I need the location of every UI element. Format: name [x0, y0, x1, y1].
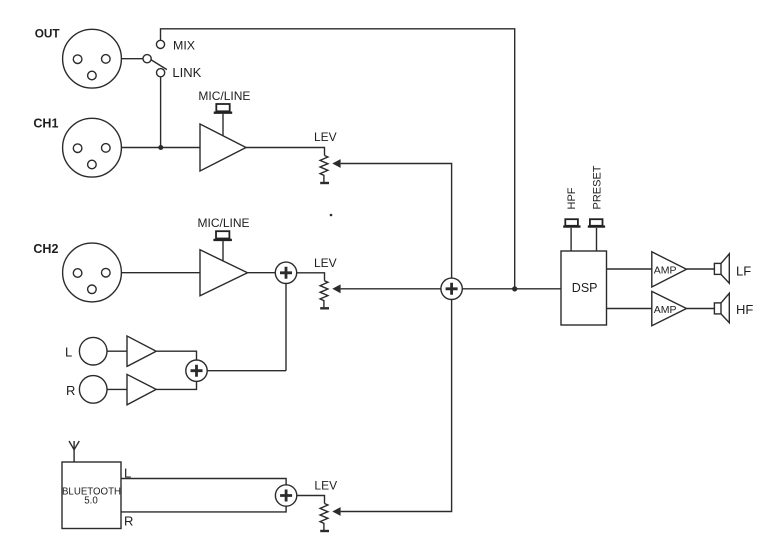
svg-text:MIC/LINE: MIC/LINE — [198, 216, 250, 230]
svg-text:R: R — [124, 514, 133, 529]
svg-text:LF: LF — [736, 264, 751, 279]
svg-text:LEV: LEV — [314, 130, 337, 144]
svg-text:HPF: HPF — [566, 187, 578, 209]
svg-text:LEV: LEV — [314, 256, 337, 270]
svg-text:L: L — [124, 466, 131, 481]
svg-text:DSP: DSP — [572, 281, 598, 295]
svg-text:HF: HF — [736, 302, 753, 317]
svg-text:MIX: MIX — [173, 39, 195, 53]
svg-text:OUT: OUT — [35, 27, 61, 41]
svg-text:MIC/LINE: MIC/LINE — [198, 89, 250, 103]
svg-text:AMP: AMP — [654, 264, 677, 276]
svg-text:5.0: 5.0 — [84, 496, 98, 507]
svg-text:CH2: CH2 — [33, 242, 58, 256]
svg-text:PRESET: PRESET — [592, 165, 604, 209]
svg-text:L: L — [65, 345, 72, 360]
svg-text:R: R — [66, 383, 75, 398]
svg-text:AMP: AMP — [654, 304, 677, 316]
svg-text:LINK: LINK — [172, 65, 201, 80]
svg-text:CH1: CH1 — [33, 117, 58, 131]
svg-text:LEV: LEV — [314, 479, 337, 493]
